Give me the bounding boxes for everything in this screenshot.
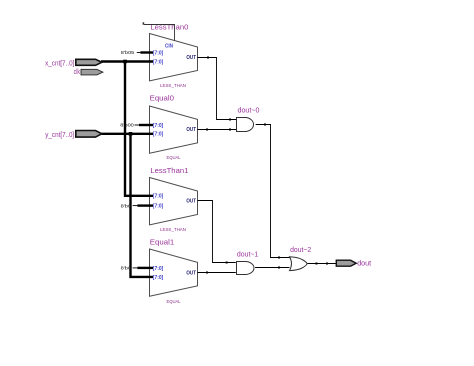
port y_cnt[7..0]	[45, 130, 102, 139]
comparator LessThan1	[150, 166, 198, 232]
node arrow into dout~0 top	[229, 119, 231, 121]
svg-text:EQUAL: EQUAL	[167, 299, 181, 304]
wire Equal0 OUT to dout~0	[197, 129, 236, 131]
svg-text:LessThan0: LessThan0	[150, 22, 188, 31]
port x_cnt[7..0]	[45, 58, 102, 67]
svg-text:Equal1: Equal1	[150, 237, 174, 246]
and-gate dout~1	[237, 250, 259, 275]
node arrow into dout~1 top	[226, 262, 228, 264]
svg-text:OUT: OUT	[186, 127, 196, 133]
svg-text:[7:0]: [7:0]	[153, 123, 164, 129]
wire constant to LessThan1	[121, 203, 153, 208]
wire y_cnt bus	[101, 133, 153, 135]
svg-text:8'b0: 8'b0	[121, 203, 132, 208]
node CIN tie	[143, 22, 145, 24]
port dout	[336, 259, 372, 268]
svg-text:y_cnt[7..0]: y_cnt[7..0]	[45, 130, 74, 139]
svg-text:Equal0: Equal0	[150, 94, 174, 103]
node arrow on LessThan0 out	[207, 57, 209, 59]
svg-text:OUT: OUT	[186, 198, 196, 204]
node arrow into dout~0 bottom	[229, 129, 231, 131]
wire CIN constant	[144, 25, 175, 41]
node arrow on Equal0 out	[206, 129, 208, 131]
wire dout~1 to dout~2	[255, 267, 289, 269]
node junction x_cnt	[123, 60, 127, 64]
svg-text:LessThan1: LessThan1	[150, 166, 188, 175]
svg-text:dout~0: dout~0	[238, 105, 260, 114]
svg-text:LESS_THAN: LESS_THAN	[160, 83, 186, 88]
comparator Equal0	[150, 94, 198, 160]
node arrow on dout wire 1	[315, 263, 317, 265]
wire dout~0 to dout~2	[256, 125, 290, 258]
wire dout~2 to port dout	[307, 263, 336, 265]
svg-text:x_cnt[7..0]: x_cnt[7..0]	[45, 58, 74, 67]
node arrow into dout~2 top	[278, 257, 280, 259]
svg-text:CIN: CIN	[165, 44, 173, 50]
node arrow on dout~0 out	[264, 124, 266, 126]
wire constant to LessThan0	[121, 50, 153, 55]
wire x_cnt trunk to LessThan1	[125, 62, 153, 196]
svg-text:clk: clk	[74, 67, 81, 76]
svg-text:LESS_THAN: LESS_THAN	[160, 227, 186, 232]
wire constant to Equal1	[121, 266, 153, 271]
svg-text:dout: dout	[357, 259, 372, 268]
svg-text:[7:0]: [7:0]	[153, 203, 164, 209]
or-gate dout~2	[290, 245, 312, 270]
svg-text:OUT: OUT	[186, 270, 196, 276]
wire x_cnt bus	[101, 60, 153, 62]
svg-text:[7:0]: [7:0]	[153, 50, 164, 56]
node arrow on dout wire 2	[326, 263, 328, 265]
wire y_cnt trunk to Equal1	[131, 134, 154, 277]
node arrow into dout~1 bottom	[206, 272, 208, 274]
svg-text:[7:0]: [7:0]	[153, 59, 164, 65]
node junction y_cnt	[129, 132, 133, 136]
svg-text:[7:0]: [7:0]	[153, 132, 164, 138]
wire LessThan1 OUT to dout~1	[197, 201, 236, 263]
wire Equal1 OUT to dout~1	[197, 272, 236, 274]
and-gate dout~0	[237, 105, 260, 131]
comparator LessThan0	[150, 22, 198, 88]
svg-text:OUT: OUT	[186, 55, 196, 61]
svg-text:8'b0: 8'b0	[121, 266, 132, 271]
port clk	[74, 67, 103, 76]
svg-text:dout~2: dout~2	[290, 245, 311, 254]
svg-text:[7:0]: [7:0]	[153, 266, 164, 272]
svg-text:8'b05: 8'b05	[121, 50, 135, 55]
svg-text:[7:0]: [7:0]	[153, 275, 164, 281]
svg-text:[7:0]: [7:0]	[153, 194, 164, 200]
wire constant to Equal0	[120, 123, 153, 128]
svg-text:dout~1: dout~1	[237, 250, 258, 259]
svg-text:8'b00: 8'b00	[120, 123, 134, 128]
comparator Equal1	[150, 237, 198, 303]
node arrow into dout~2 bottom	[278, 267, 280, 269]
wire LessThan0 OUT to dout~0	[197, 58, 236, 120]
svg-text:EQUAL: EQUAL	[167, 155, 181, 160]
